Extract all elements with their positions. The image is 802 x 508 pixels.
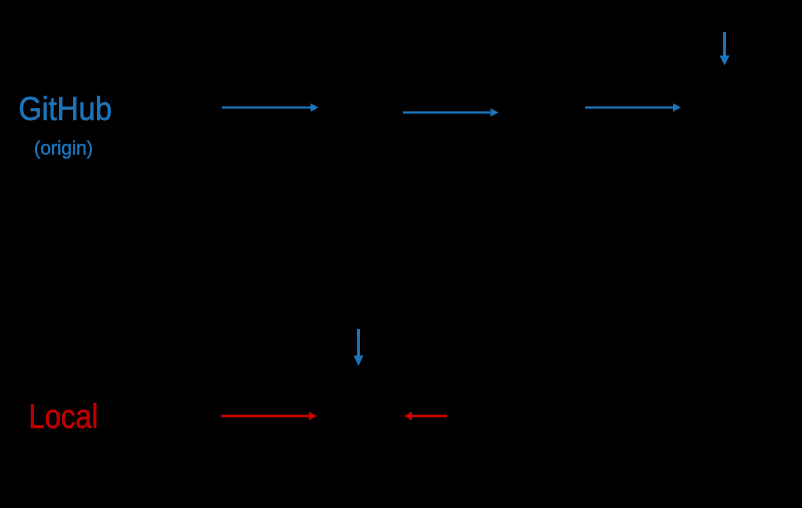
wire blue down arrow D2: [354, 329, 364, 366]
svg-text:(origin): (origin): [34, 138, 93, 160]
wire blue arrow A3: [585, 103, 681, 112]
wire red arrow R2: [404, 412, 447, 421]
wire blue down arrow D1: [720, 32, 730, 66]
svg-text:Local: Local: [29, 398, 99, 436]
svg-text:GitHub: GitHub: [19, 90, 113, 127]
wire blue arrow A1: [222, 103, 319, 112]
wire blue arrow A2: [403, 108, 499, 117]
wire red arrow R1: [221, 412, 317, 421]
